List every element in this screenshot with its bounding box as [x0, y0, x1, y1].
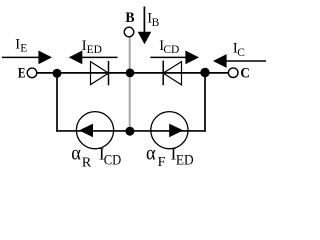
svg-text:ED: ED: [176, 152, 194, 168]
current source right (alpha_F I_ED): [151, 112, 188, 149]
svg-text:C: C: [240, 66, 250, 82]
svg-text:R: R: [82, 155, 92, 170]
terminal C circle: [228, 68, 238, 78]
diode D1 left (emitter diode): [91, 61, 109, 85]
svg-text:CD: CD: [163, 44, 179, 56]
svg-text:C: C: [237, 47, 245, 59]
diode D2 right (collector diode): [163, 61, 181, 86]
svg-text:CD: CD: [104, 152, 122, 168]
svg-text:ED: ED: [87, 44, 102, 56]
current source left (alpha_R I_CD): [76, 112, 113, 149]
wire right vertical: [204, 73, 206, 132]
terminal E circle: [27, 68, 37, 78]
svg-text:B: B: [152, 17, 160, 29]
node right junction: [200, 68, 209, 77]
terminal B circle: [124, 27, 134, 37]
wire left vertical: [56, 73, 58, 132]
node left junction: [53, 69, 62, 78]
svg-text:α: α: [146, 144, 156, 165]
svg-text:F: F: [158, 155, 166, 170]
arrow I_C: [213, 54, 266, 68]
label alpha_R I_CD: [71, 144, 121, 171]
arrow I_E: [2, 51, 52, 65]
wire base vertical (gray) from B to bottom: [129, 37, 131, 131]
arrow I_CD: [150, 51, 199, 65]
svg-text:E: E: [20, 43, 27, 55]
svg-text:E: E: [18, 66, 26, 82]
arrow I_ED: [69, 51, 118, 65]
wire bottom horizontal: [56, 130, 206, 132]
node bottom center junction: [125, 127, 134, 136]
label alpha_F I_ED: [146, 144, 194, 170]
wire main horizontal E to C: [37, 72, 229, 74]
svg-text:α: α: [71, 144, 81, 165]
svg-text:B: B: [125, 10, 134, 26]
node center junction: [126, 69, 135, 78]
arrow I_B: [138, 7, 152, 45]
